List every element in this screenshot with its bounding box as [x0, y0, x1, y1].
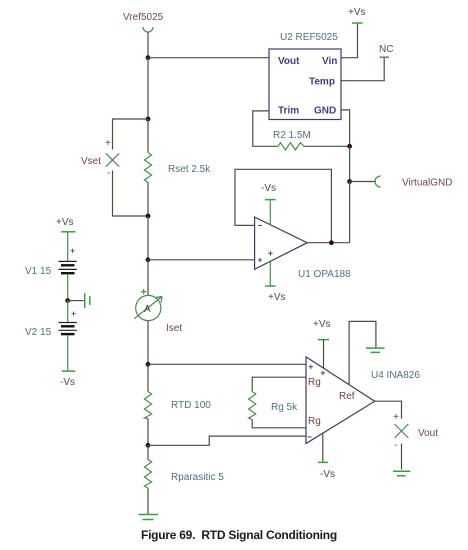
- wire U4 Rg top loop: [252, 377, 306, 391]
- node U1 output junction: [329, 240, 334, 245]
- power +Vs bar U1: [265, 285, 276, 287]
- wire j2 to Rset: [147, 119, 149, 153]
- wire GND pin to j7: [341, 110, 350, 146]
- power -Vs bar U4: [318, 461, 328, 463]
- wire R2 to j7: [304, 145, 350, 147]
- wire +Vs bar to V1: [67, 232, 69, 262]
- node j2: [146, 117, 151, 122]
- svg-text:Iset: Iset: [166, 323, 182, 334]
- voltage source Vset: [106, 153, 119, 166]
- port Vref5025: [143, 27, 153, 32]
- op-amp U1 minus mark: [258, 224, 262, 226]
- resistor Rg: [249, 392, 256, 420]
- ground Ref: [366, 348, 385, 352]
- svg-text:+: +: [393, 412, 399, 423]
- wire Ref to ground: [349, 321, 376, 384]
- battery V2: [59, 322, 77, 324]
- ground battery mid: [68, 300, 84, 302]
- svg-text:U2 REF5025: U2 REF5025: [280, 32, 338, 43]
- svg-text:Rg: Rg: [308, 377, 321, 388]
- power +Vs bar top right: [352, 22, 363, 24]
- node j1: [146, 55, 151, 60]
- wire j5 to RTD: [147, 364, 149, 391]
- svg-text:-: -: [394, 440, 397, 451]
- svg-text:+Vs: +Vs: [313, 319, 331, 330]
- wire +Vs stem U1: [269, 262, 271, 287]
- svg-text:Temp: Temp: [309, 77, 335, 88]
- svg-text:+: +: [71, 309, 76, 319]
- wire U4 Rg bottom loop: [252, 420, 306, 428]
- wire -Vs stem U4: [322, 433, 324, 463]
- svg-text:+Vs: +Vs: [348, 7, 366, 18]
- wire j6 to U4 minus input: [148, 436, 306, 445]
- current source Iset plus mark: [141, 289, 147, 294]
- wire Rset to j3: [147, 183, 149, 217]
- wire +Vs stem U4: [323, 340, 325, 369]
- svg-text:+: +: [70, 246, 75, 256]
- svg-text:Rg: Rg: [308, 416, 321, 427]
- node j8: [347, 179, 352, 184]
- wire j4 to current source: [147, 260, 149, 296]
- in-amp U4 plus marks: [309, 365, 326, 376]
- resistor R2: [278, 143, 304, 150]
- wire -Vs stem U1: [269, 200, 271, 226]
- wire j3 to j4: [147, 216, 149, 260]
- wire j5 to U4 plus input: [148, 363, 306, 365]
- power -Vs bar U1: [265, 199, 276, 201]
- IC U2 REF5025 box: [269, 49, 341, 120]
- svg-text:+Vs: +Vs: [268, 292, 286, 303]
- wire U1 feedback loop: [235, 169, 331, 242]
- resistor RTD: [144, 392, 151, 419]
- terminal NC bar: [380, 56, 390, 58]
- svg-text:Rg 5k: Rg 5k: [271, 402, 298, 413]
- wire j1 to j2: [147, 58, 149, 119]
- wire Trim to R2: [253, 111, 278, 146]
- svg-text:-Vs: -Vs: [261, 183, 276, 194]
- wire j8 to output wire: [349, 182, 351, 243]
- svg-text:GND: GND: [314, 106, 336, 117]
- node j3: [146, 214, 151, 219]
- op-amp U1 triangle: [255, 217, 308, 269]
- svg-text:Vin: Vin: [322, 56, 337, 67]
- svg-text:Vout: Vout: [418, 428, 438, 439]
- wire U1 output: [307, 242, 349, 244]
- in-amp U4 minus mark: [308, 436, 312, 438]
- svg-text:R2 1.5M: R2 1.5M: [273, 130, 311, 141]
- node j6: [146, 443, 151, 448]
- node j7: [347, 144, 352, 149]
- wire V1 to mid junction: [67, 274, 69, 301]
- battery V1: [59, 260, 77, 262]
- svg-text:A: A: [144, 304, 151, 315]
- node battery mid junction: [65, 298, 70, 303]
- wire j1 to U2 Vout pin: [148, 57, 269, 59]
- op-amp U1 plus marks: [258, 251, 273, 262]
- svg-text:Trim: Trim: [278, 106, 299, 117]
- wire RTD to j6: [147, 419, 149, 446]
- svg-text:VirtualGND: VirtualGND: [402, 178, 452, 189]
- wire port to j1: [147, 32, 149, 58]
- svg-text:Vout: Vout: [278, 56, 300, 67]
- wire Vin to +Vs: [341, 23, 358, 58]
- svg-text:U1 OPA188: U1 OPA188: [298, 269, 351, 280]
- svg-text:-: -: [107, 168, 110, 179]
- node j4: [146, 257, 151, 262]
- wire Rparasitic to ground: [147, 488, 149, 515]
- svg-text:+: +: [105, 138, 111, 149]
- svg-text:-Vs: -Vs: [320, 469, 335, 480]
- node j5: [146, 362, 151, 367]
- wire U4 output to Vout: [375, 401, 402, 419]
- svg-text:Rparasitic 5: Rparasitic 5: [171, 472, 224, 483]
- wire j7 to j8: [349, 146, 351, 181]
- wire j8 to VirtualGND port: [350, 181, 376, 183]
- resistor Rset: [144, 153, 151, 183]
- wire j6 to Rparasitic: [147, 445, 149, 459]
- wire V2 to -Vs bar: [67, 335, 69, 371]
- current source arrow: [134, 297, 162, 319]
- meter Vout X: [395, 424, 409, 438]
- ground bottom: [139, 515, 159, 520]
- svg-text:NC: NC: [379, 44, 393, 55]
- svg-text:Vref5025: Vref5025: [123, 12, 164, 23]
- svg-text:Vset: Vset: [81, 156, 101, 167]
- svg-text:U4 INA826: U4 INA826: [371, 370, 420, 381]
- svg-text:RTD 100: RTD 100: [171, 400, 211, 411]
- wire j4 to U1 plus input: [148, 259, 255, 261]
- svg-text:V2 15: V2 15: [25, 327, 52, 338]
- wire Temp to NC: [341, 57, 384, 80]
- resistor Rparasitic: [144, 460, 151, 489]
- svg-text:Figure 69. RTD Signal Conditi: Figure 69. RTD Signal Conditioning: [141, 528, 337, 542]
- current source circle: [136, 295, 161, 320]
- power +Vs bar U4: [318, 339, 329, 341]
- ground Vout: [393, 471, 410, 476]
- port VirtualGND: [375, 176, 380, 187]
- wire mid junction to V2: [67, 301, 69, 323]
- power +Vs bar battery: [61, 231, 75, 233]
- svg-text:Rset 2.5k: Rset 2.5k: [168, 164, 211, 175]
- svg-text:+Vs: +Vs: [56, 217, 74, 228]
- wire current source to j5: [147, 321, 149, 365]
- power -Vs bar battery: [62, 370, 75, 372]
- in-amp U4 triangle: [306, 357, 375, 444]
- svg-text:V1 15: V1 15: [25, 266, 52, 277]
- svg-text:-Vs: -Vs: [60, 377, 75, 388]
- wire j2 to Vset top: [113, 119, 149, 150]
- svg-text:Ref: Ref: [339, 391, 355, 402]
- wire Vout X to ground: [401, 444, 403, 470]
- wire Vset bottom to j3: [113, 171, 149, 217]
